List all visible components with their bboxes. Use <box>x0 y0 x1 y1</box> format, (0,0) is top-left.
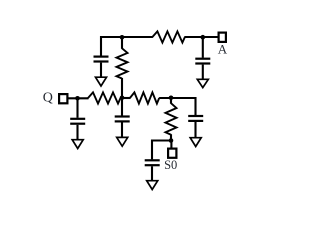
wire right corner drop <box>194 97 196 115</box>
node dot right junction <box>169 96 174 101</box>
resistor R1 <box>152 31 185 42</box>
capacitor C4 <box>115 115 130 122</box>
ground G6 <box>147 181 158 190</box>
wire C3 to ground <box>76 125 78 139</box>
node dot top junction at R2 <box>120 35 125 40</box>
wire from top wire down to R2 <box>121 37 123 49</box>
wire C4 to ground <box>121 123 123 137</box>
wire middle branch drop <box>121 98 123 116</box>
wire R2 to middle wire <box>121 78 123 98</box>
svg-text:S0: S0 <box>164 158 177 172</box>
wire top horizontal right segment <box>184 36 217 38</box>
svg-text:Q: Q <box>43 91 53 106</box>
wire C6 to ground <box>151 166 153 180</box>
capacitor C6 <box>145 159 160 166</box>
wire R5 bottom lead <box>170 134 172 140</box>
ground G2 <box>197 79 208 87</box>
node dot middle junction <box>120 96 125 101</box>
resistor R3 <box>88 92 121 103</box>
wire C5 to ground <box>194 122 196 137</box>
capacitor C5 <box>188 115 203 122</box>
ground G1 <box>96 77 107 86</box>
port S0 <box>168 149 176 158</box>
wire Q branch drop <box>76 98 78 118</box>
port A <box>219 33 226 42</box>
node dot Q junction <box>75 96 80 101</box>
ground G4 <box>117 137 128 146</box>
wire between R3 and R4 <box>121 97 131 99</box>
wire top horizontal left segment <box>101 36 153 38</box>
ground G5 <box>190 138 201 147</box>
wire C1 to ground <box>100 63 102 77</box>
node dot S0 junction <box>169 138 174 143</box>
wire junction left to C6 <box>152 139 171 141</box>
capacitor C3 <box>70 118 85 125</box>
resistor R2 vertical <box>117 48 128 78</box>
resistor R5 vertical <box>166 103 177 135</box>
capacitor C1 <box>94 56 109 63</box>
port Q <box>59 94 67 103</box>
wire drop to C2 <box>202 37 204 58</box>
wire Q to R3 <box>68 97 88 99</box>
wire left drop from top wire <box>100 36 102 56</box>
capacitor C2 <box>195 58 210 65</box>
wire R5 top lead <box>170 98 172 104</box>
wire C6 drop <box>151 140 153 160</box>
resistor R4 <box>130 92 159 103</box>
svg-text:A: A <box>218 42 228 57</box>
ground G3 <box>72 140 83 149</box>
node dot top-right junction <box>201 35 206 40</box>
wire R4 to right corner <box>159 97 195 99</box>
wire C2 to ground <box>202 65 204 79</box>
wire junction to port S0 <box>170 141 172 148</box>
